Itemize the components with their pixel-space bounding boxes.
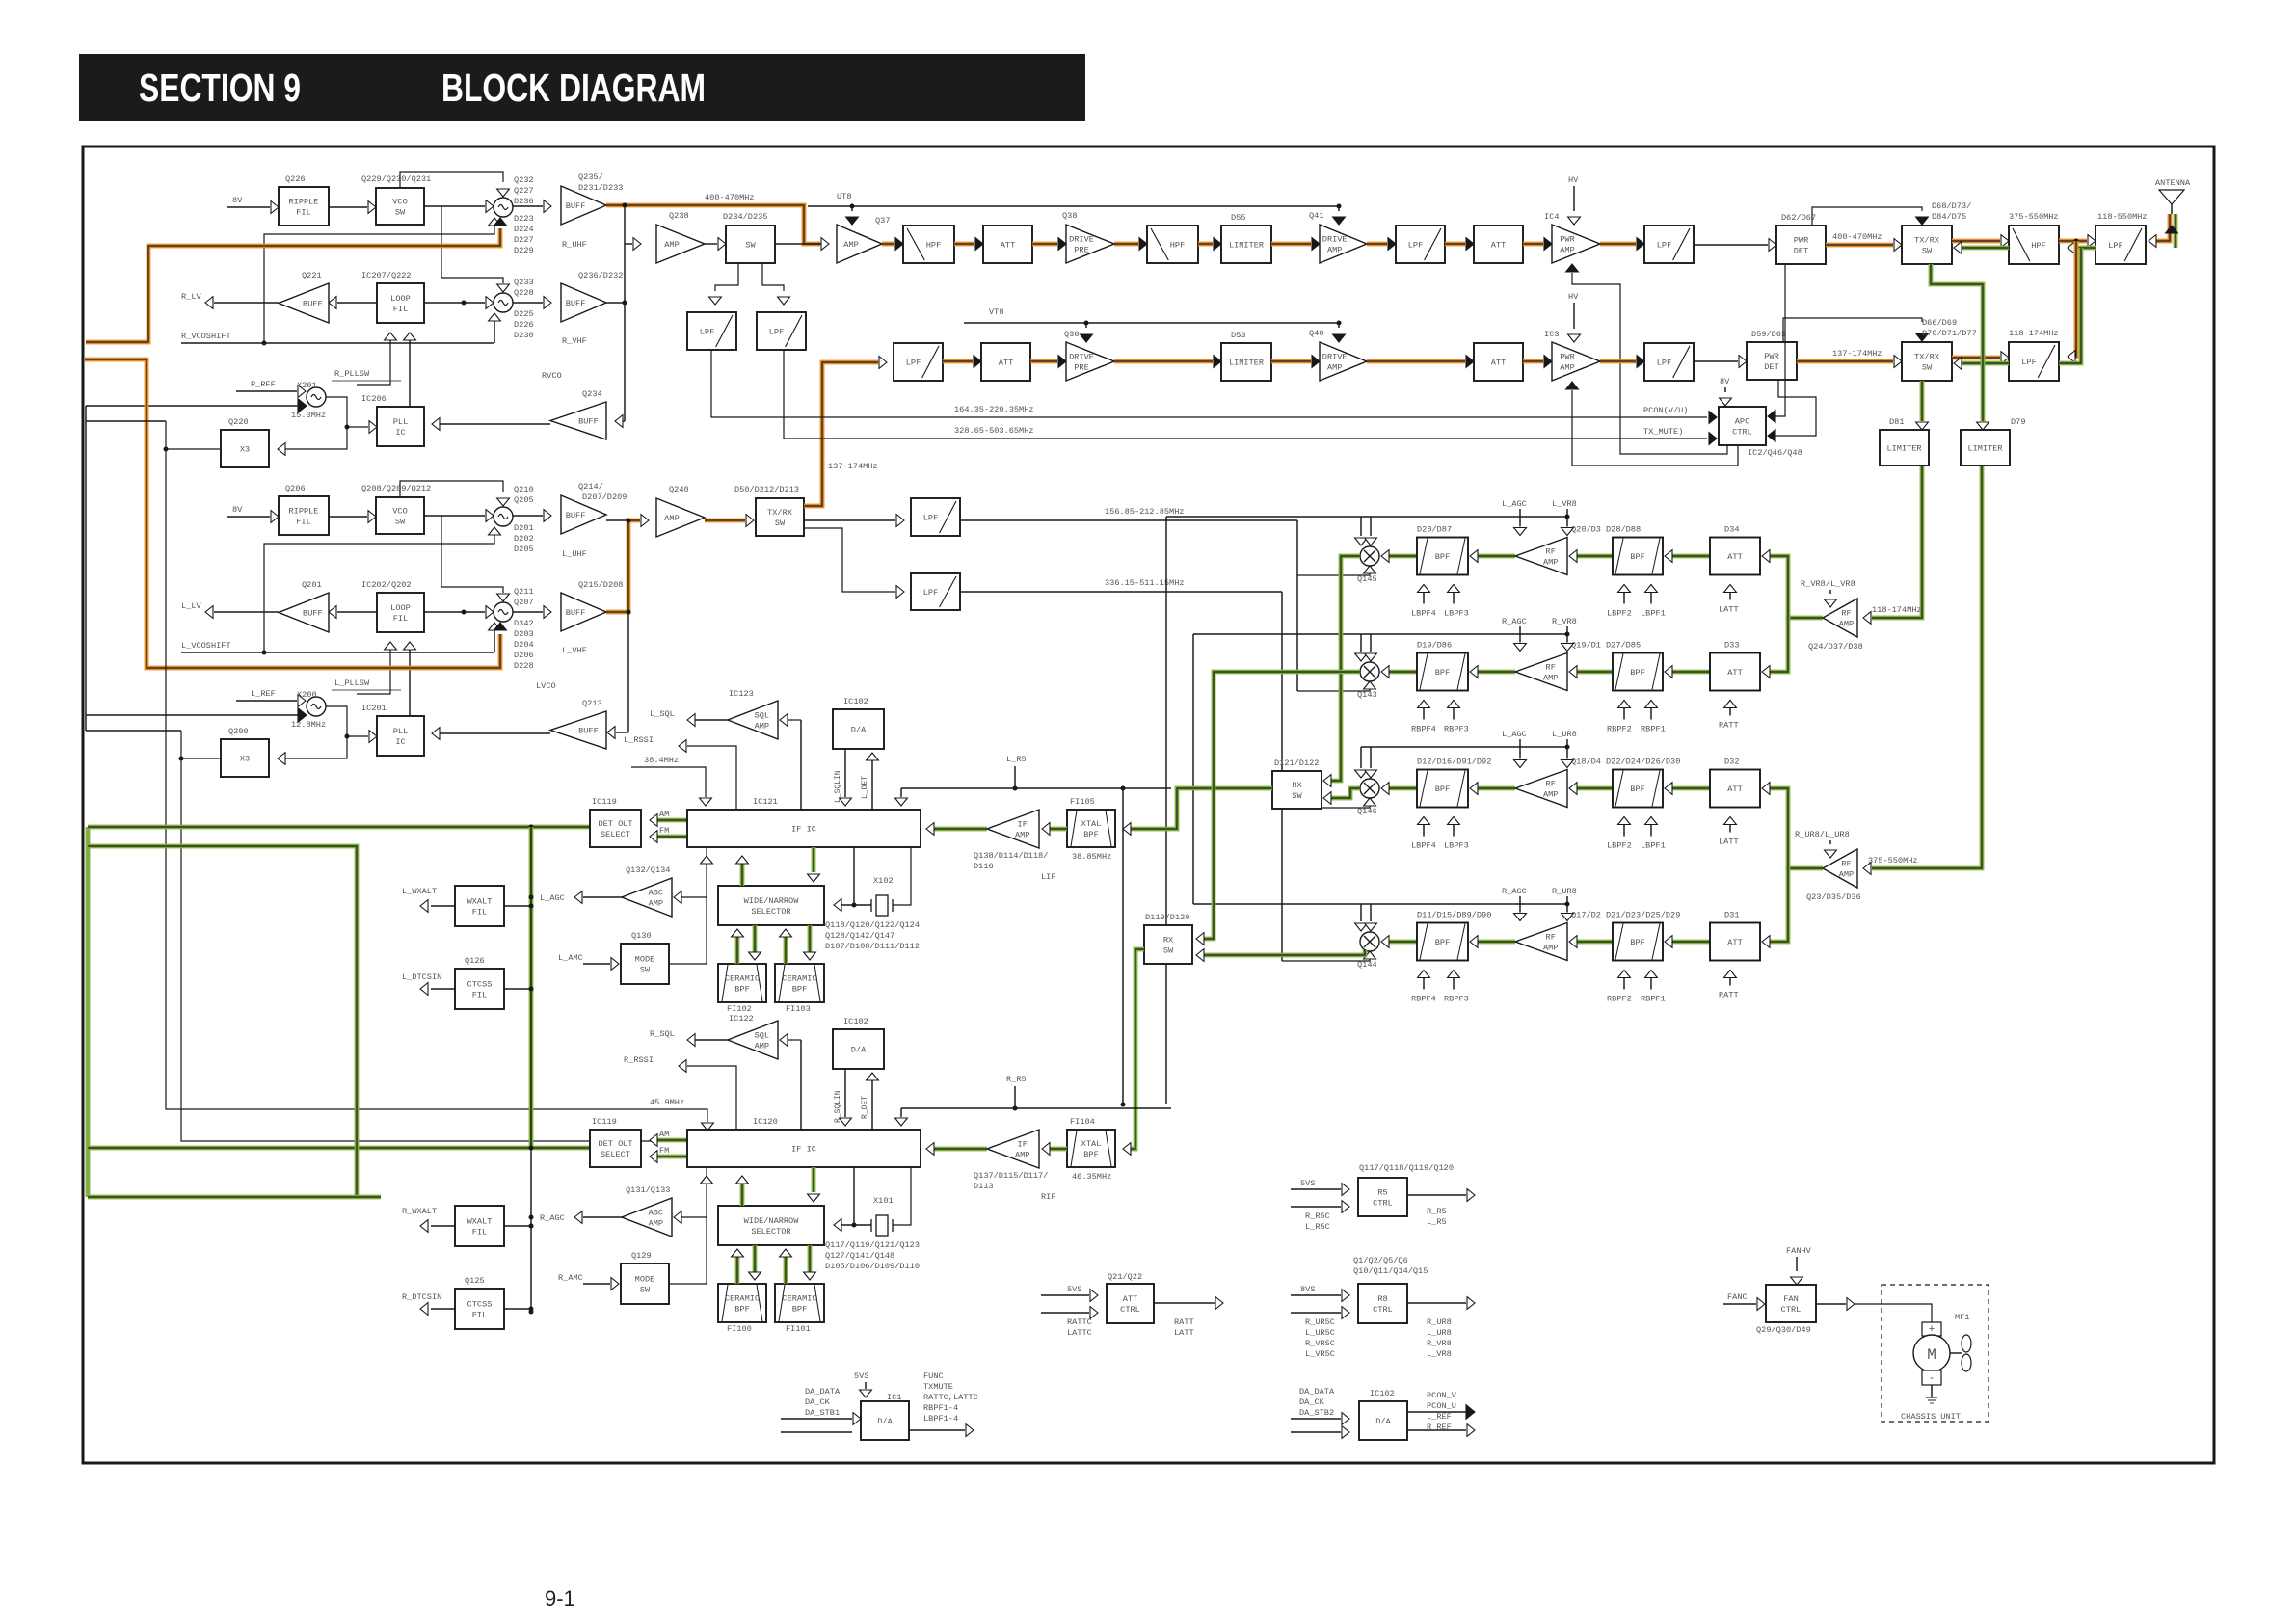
- green am wire: [652, 1138, 687, 1143]
- svg-text:LPF: LPF: [923, 514, 938, 523]
- svg-text:L_VR8: L_VR8: [1552, 499, 1577, 509]
- svg-text:SW: SW: [640, 1286, 651, 1295]
- svg-text:RATTC,LATTC: RATTC,LATTC: [923, 1393, 978, 1402]
- svg-text:LPF: LPF: [700, 328, 714, 337]
- svg-text:LIMITER: LIMITER: [1229, 241, 1264, 251]
- svg-text:ATT: ATT: [1727, 938, 1742, 947]
- crystal X101: [876, 1215, 888, 1236]
- svg-text:VT8: VT8: [989, 307, 1003, 317]
- svg-text:AMP: AMP: [1327, 363, 1342, 373]
- svg-text:L_UHF: L_UHF: [562, 549, 587, 559]
- green mixer Q145 output down to RX SW D121/D122: [1331, 556, 1360, 781]
- svg-text:SW: SW: [1163, 946, 1174, 956]
- att ctrl control input: [1041, 1312, 1089, 1314]
- green bpf to mixer Q146: [1389, 786, 1417, 791]
- svg-text:R_UR8: R_UR8: [1552, 887, 1577, 896]
- mixer2 bottom arrow from vcoshift: [494, 628, 495, 652]
- bpf2 pins RBPF2 RBPF1: [1623, 701, 1625, 720]
- svg-text:AM: AM: [659, 810, 669, 819]
- svg-text:R_VR8: R_VR8: [1552, 617, 1577, 626]
- svg-text:WIDE/NARROW: WIDE/NARROW: [744, 1216, 800, 1226]
- green if ic to wn selector 1: [740, 1180, 745, 1206]
- mixer L mixer 2: [494, 602, 513, 622]
- svg-text:D107/D108/D111/D112: D107/D108/D111/D112: [825, 942, 920, 951]
- svg-text:LIMITER: LIMITER: [1967, 444, 2002, 454]
- lpf VHF b: [1644, 343, 1694, 381]
- svg-text:Q211: Q211: [514, 587, 534, 597]
- svg-text:400-470MHz: 400-470MHz: [1832, 232, 1882, 242]
- green bus horizontal to det out upper: [88, 825, 590, 830]
- buffer Q213 feedback: [432, 732, 550, 734]
- svg-text:LBPF2: LBPF2: [1607, 609, 1632, 619]
- svg-text:CTRL: CTRL: [1120, 1305, 1140, 1315]
- svg-text:LOOP: LOOP: [390, 294, 411, 304]
- svg-text:D203: D203: [514, 629, 534, 639]
- orange tx/rx sw to hpf UHF: [1952, 239, 2000, 244]
- orange wire to lpf2: [1600, 242, 1636, 247]
- svg-text:IC122: IC122: [729, 1014, 754, 1024]
- loop filter IC202/Q202: [377, 593, 424, 632]
- svg-text:BPF: BPF: [1435, 785, 1450, 794]
- svg-text:15.3MHz: 15.3MHz: [291, 411, 326, 420]
- svg-text:LBPF1-4: LBPF1-4: [923, 1414, 958, 1423]
- orange wire limiter to drive amp Q40: [1271, 359, 1311, 364]
- lpf 118-550MHz: [2096, 226, 2146, 264]
- svg-text:D236: D236: [514, 197, 534, 206]
- svg-text:IC202/Q202: IC202/Q202: [361, 580, 412, 590]
- orange wire to drive amp Q41: [1271, 242, 1311, 247]
- orange tx/rx sw VHF to lpf 118-174: [1952, 356, 2000, 360]
- svg-text:L_SQL: L_SQL: [650, 709, 675, 719]
- wire amp to sw: [705, 243, 717, 245]
- UT8 arrow into Q37: [851, 206, 853, 211]
- svg-text:L_R5: L_R5: [1006, 755, 1027, 764]
- svg-text:BPF: BPF: [1083, 830, 1098, 839]
- bpf pins LBPF4 LBPF3: [1423, 817, 1425, 837]
- APC feedback into IC4: [1566, 264, 1579, 272]
- svg-text:Q227: Q227: [514, 186, 534, 196]
- mixer R mixer 2: [494, 293, 513, 312]
- wide/narrow selector ['Q118/Q120/Q122/Q124', 'Q128/Q142/Q147', 'D107/D108/D111/D112']: [718, 886, 824, 925]
- svg-text:HV: HV: [1568, 292, 1579, 302]
- svg-text:IC: IC: [395, 737, 405, 747]
- orange wire att to pwr amp IC3: [1523, 359, 1543, 364]
- bpf D12/D16/D91/D92: [1417, 770, 1468, 808]
- svg-text:ATT: ATT: [1001, 241, 1015, 251]
- bpf D27/D85: [1613, 653, 1663, 691]
- buffer amp Q201: [279, 593, 329, 632]
- svg-text:Q36: Q36: [1064, 330, 1079, 339]
- orange green pair down to VHF lpf: [2068, 241, 2076, 357]
- UT8 arrow into Q41: [1338, 206, 1340, 211]
- svg-text:IC2/Q46/Q48: IC2/Q46/Q48: [1748, 448, 1802, 458]
- svg-text:FANC: FANC: [1727, 1292, 1748, 1302]
- r5 ctrl output: [1407, 1194, 1466, 1196]
- green rf amp Q17/D2 to bpf: [1478, 940, 1515, 945]
- svg-text:L_R5C: L_R5C: [1305, 1222, 1330, 1232]
- svg-text:D84/D75: D84/D75: [1932, 212, 1966, 222]
- svg-text:137-174MHz: 137-174MHz: [828, 462, 878, 471]
- svg-text:D/A: D/A: [851, 726, 867, 735]
- orange wire pwr amp to lpf VHF: [1600, 359, 1636, 364]
- wire ripple to vco sw: [329, 206, 367, 208]
- ceramic bpf FI101: [775, 1284, 824, 1322]
- svg-text:LIMITER: LIMITER: [1229, 359, 1264, 368]
- switch D234/D235: [726, 226, 775, 263]
- svg-text:HV: HV: [1568, 175, 1579, 185]
- svg-text:156.85-212.85MHz: 156.85-212.85MHz: [1105, 507, 1185, 517]
- svg-text:DET: DET: [1794, 247, 1808, 256]
- svg-text:Q129: Q129: [631, 1251, 652, 1261]
- svg-text:TXMUTE: TXMUTE: [923, 1382, 953, 1392]
- svg-text:328.65-503.65MHz: 328.65-503.65MHz: [954, 426, 1034, 436]
- long reference line from left: [86, 714, 298, 716]
- svg-text:AMP: AMP: [1543, 558, 1558, 568]
- svg-text:AGC: AGC: [649, 1209, 663, 1218]
- svg-text:SW: SW: [395, 518, 406, 527]
- svg-text:BPF: BPF: [1435, 938, 1450, 947]
- att D31: [1710, 923, 1760, 961]
- svg-text:D55: D55: [1231, 213, 1245, 223]
- mixer L mixer 1: [494, 507, 513, 526]
- wire vco sw to mixer1: [424, 205, 485, 207]
- svg-text:BUFF: BUFF: [566, 201, 586, 211]
- if ic IC120: [687, 1130, 921, 1167]
- r5 bus vertical connector: [1122, 788, 1124, 1104]
- buffer amp Q236/D232: [513, 302, 543, 304]
- svg-text:PWR: PWR: [1794, 236, 1808, 246]
- svg-text:FIL: FIL: [472, 991, 487, 1000]
- svg-text:APC: APC: [1735, 417, 1749, 427]
- R_LV output label: [214, 302, 279, 304]
- green att to bpf2 D33: [1672, 670, 1710, 675]
- orange wire to lpf: [1367, 242, 1387, 247]
- LO bus 1 to mixers Q145 Q143: [1296, 520, 1298, 691]
- svg-text:D207/D209: D207/D209: [582, 492, 627, 502]
- green mixer Q143 output down to RX SW D119/D120: [1204, 672, 1360, 939]
- agc amp output to bus: [583, 1216, 622, 1218]
- svg-text:RF: RF: [1546, 780, 1556, 789]
- motor MF1 plus terminal: [1922, 1322, 1941, 1336]
- svg-text:R_DTCSIN: R_DTCSIN: [402, 1292, 441, 1302]
- svg-text:LATTC: LATTC: [1067, 1328, 1092, 1338]
- wire vco sw to mixer2 top: [441, 206, 503, 283]
- 38.4MHz line to IF IC: [631, 767, 706, 797]
- svg-text:D225: D225: [514, 309, 534, 319]
- svg-text:Q206: Q206: [285, 484, 306, 493]
- svg-text:CTRL: CTRL: [1732, 428, 1752, 438]
- svg-text:L_VR5C: L_VR5C: [1305, 1349, 1335, 1359]
- green rx sw to xtal bpf FI105: [1125, 788, 1272, 829]
- svg-text:RATT: RATT: [1719, 991, 1739, 1000]
- lpf 156MHz: [911, 498, 960, 536]
- svg-text:D22/D24/D26/D30: D22/D24/D26/D30: [1606, 758, 1680, 767]
- svg-text:FI102: FI102: [727, 1004, 752, 1014]
- arrows into rf amp Q20/D3 top: [1519, 517, 1521, 527]
- svg-text:LPF: LPF: [2108, 241, 2122, 251]
- lpf row1: [1396, 226, 1445, 263]
- svg-text:PWR: PWR: [1560, 235, 1574, 245]
- green bpf2 to rf amp Q17/D2: [1577, 940, 1613, 945]
- orange wire to ATT: [954, 242, 974, 247]
- svg-text:AMP: AMP: [1560, 246, 1574, 255]
- svg-text:LPF: LPF: [2021, 358, 2036, 367]
- wire loop fil to mixer2: [424, 611, 485, 613]
- svg-text:Q138/D114/D118/: Q138/D114/D118/: [974, 851, 1048, 861]
- orange pwr det to tx/rx sw VHF 137-174MHz: [1797, 359, 1893, 364]
- svg-text:Q228: Q228: [514, 288, 534, 298]
- svg-text:38.85MHz: 38.85MHz: [1072, 852, 1111, 862]
- svg-text:CERAMIC: CERAMIC: [782, 1294, 816, 1304]
- svg-text:IC4: IC4: [1544, 212, 1559, 222]
- att pin RATT: [1729, 971, 1731, 986]
- agc amp input from if ic: [681, 847, 707, 897]
- rx switch D121/D122: [1272, 771, 1322, 809]
- svg-text:PCON_V: PCON_V: [1427, 1391, 1457, 1400]
- svg-text:118-174MHz: 118-174MHz: [2009, 329, 2059, 338]
- svg-text:Q21/Q22: Q21/Q22: [1108, 1272, 1142, 1282]
- svg-text:R_RSSI: R_RSSI: [624, 1055, 654, 1065]
- svg-text:12.8MHz: 12.8MHz: [291, 720, 326, 730]
- green limiter D81 to rf amp Q24: [1872, 466, 1922, 618]
- svg-text:ATT: ATT: [999, 359, 1013, 368]
- svg-text:D113: D113: [974, 1182, 994, 1191]
- svg-text:D62/D67: D62/D67: [1781, 213, 1816, 223]
- arrow into APC 2: [1709, 433, 1717, 445]
- svg-text:DET OUT: DET OUT: [598, 819, 632, 829]
- svg-text:Q207: Q207: [514, 598, 534, 607]
- svg-text:FI104: FI104: [1070, 1117, 1095, 1127]
- svg-text:IC123: IC123: [729, 689, 754, 699]
- antenna arrow up: [2166, 226, 2178, 233]
- svg-text:IC207/Q222: IC207/Q222: [361, 271, 412, 280]
- svg-text:CHASSIS UNIT: CHASSIS UNIT: [1901, 1412, 1961, 1422]
- ctcss filter Q125: [455, 1289, 504, 1329]
- svg-text:Q1/Q2/Q5/Q6: Q1/Q2/Q5/Q6: [1353, 1256, 1408, 1265]
- svg-text:D121/D122: D121/D122: [1274, 758, 1319, 768]
- svg-text:R_UR8: R_UR8: [1427, 1317, 1452, 1327]
- bpf D22/D24/D26/D30: [1613, 770, 1663, 808]
- x3 multiplier Q200: [221, 739, 269, 777]
- mode sw output to if ic: [669, 897, 707, 964]
- svg-text:IF IC: IF IC: [791, 1145, 816, 1155]
- green xtal bpf to if amp: [1050, 827, 1067, 832]
- svg-text:MODE: MODE: [635, 1275, 655, 1285]
- lpf 118-174MHz: [2009, 342, 2059, 381]
- svg-text:Q117/Q118/Q119/Q120: Q117/Q118/Q119/Q120: [1359, 1163, 1454, 1173]
- amp Q240: [641, 515, 649, 527]
- svg-text:AGC: AGC: [649, 889, 663, 898]
- svg-text:Q143: Q143: [1357, 690, 1377, 700]
- svg-text:L_UR5C: L_UR5C: [1305, 1328, 1335, 1338]
- svg-text:Q10/Q11/Q14/Q15: Q10/Q11/Q14/Q15: [1353, 1266, 1428, 1276]
- svg-text:375-550MHz: 375-550MHz: [1868, 856, 1918, 865]
- svg-text:SQL: SQL: [755, 711, 769, 721]
- svg-text:FI103: FI103: [786, 1004, 811, 1014]
- svg-text:Q215/D208: Q215/D208: [578, 580, 623, 590]
- wire ripple to vco sw: [329, 516, 367, 518]
- limiter D55: [1221, 226, 1271, 263]
- svg-text:D21/D23/D25/D29: D21/D23/D25/D29: [1606, 911, 1680, 920]
- svg-text:Q132/Q134: Q132/Q134: [626, 865, 670, 875]
- svg-text:L_RSSI: L_RSSI: [624, 735, 654, 745]
- wire lpf to pwr det D59/D63: [1694, 360, 1738, 362]
- orange arrow into VHF LPF: [879, 357, 887, 369]
- ceramic bpf FI103: [775, 964, 824, 1002]
- svg-text:DET OUT: DET OUT: [598, 1139, 632, 1149]
- svg-text:BPF: BPF: [1083, 1150, 1098, 1159]
- mixer Q145: [1360, 546, 1379, 566]
- svg-text:D59/D63: D59/D63: [1751, 330, 1786, 339]
- svg-text:BLOCK DIAGRAM: BLOCK DIAGRAM: [441, 66, 706, 110]
- svg-text:DA_CK: DA_CK: [805, 1397, 831, 1407]
- svg-text:D/A: D/A: [851, 1046, 867, 1055]
- svg-text:FI105: FI105: [1070, 797, 1095, 807]
- svg-text:Q130: Q130: [631, 931, 652, 941]
- svg-text:WXALT: WXALT: [467, 897, 493, 907]
- svg-text:Q236/D232: Q236/D232: [578, 271, 623, 280]
- svg-text:SW: SW: [1922, 247, 1933, 256]
- svg-text:D68/D73/: D68/D73/: [1932, 201, 1971, 211]
- svg-text:45.9MHz: 45.9MHz: [650, 1098, 684, 1107]
- bpf D11/D15/D89/D90: [1417, 923, 1468, 961]
- svg-text:D20/D87: D20/D87: [1417, 525, 1452, 535]
- svg-text:AM: AM: [659, 1130, 669, 1139]
- svg-text:FIL: FIL: [296, 208, 310, 218]
- svg-text:R_SQLIN: R_SQLIN: [834, 1090, 842, 1123]
- svg-text:D34: D34: [1724, 525, 1739, 535]
- svg-text:LBPF3: LBPF3: [1444, 609, 1469, 619]
- svg-text:Q17/D2: Q17/D2: [1571, 911, 1601, 920]
- green VHF tx/rx sw down to limiter D81: [1920, 381, 1925, 421]
- hpf 375-550MHz: [2009, 226, 2059, 264]
- buffer amp Q214/: [513, 515, 543, 517]
- if ic IC121: [687, 810, 921, 847]
- mixer2 bottom arrow from vcoshift: [494, 319, 495, 343]
- svg-text:DRIVE: DRIVE: [1069, 353, 1094, 362]
- svg-text:L_AGC: L_AGC: [1502, 499, 1527, 509]
- orange wire to att2: [1445, 242, 1465, 247]
- pwr det D62 feedback to APC: [1775, 264, 1785, 416]
- orange wire lpf to att VHF: [943, 359, 973, 364]
- svg-text:CTCSS: CTCSS: [467, 980, 493, 990]
- svg-text:SQL: SQL: [755, 1031, 769, 1041]
- att row1 b: [1474, 226, 1523, 263]
- orange arrow into mixer L2: [494, 623, 507, 630]
- svg-text:D204: D204: [514, 640, 534, 650]
- pwr det top to tx/rx sw mute arrow: [1812, 207, 1922, 226]
- svg-text:R_R5C: R_R5C: [1305, 1211, 1330, 1221]
- agc control line row Q145: [1166, 516, 1567, 518]
- ctcss filter Q126: [455, 969, 504, 1009]
- svg-text:Q226: Q226: [285, 174, 306, 184]
- svg-text:R_AMC: R_AMC: [558, 1273, 583, 1283]
- svg-text:L_PLLSW: L_PLLSW: [334, 678, 370, 688]
- svg-text:Q220: Q220: [228, 417, 249, 427]
- svg-text:Q18/D4: Q18/D4: [1571, 758, 1601, 767]
- green bpf2 to rf amp Q19/D1: [1577, 670, 1613, 675]
- junction dot antenna bus: [2074, 239, 2079, 244]
- svg-text:R_SQL: R_SQL: [650, 1029, 675, 1039]
- pll ic IC201: [377, 716, 424, 756]
- sql output label: [689, 719, 728, 721]
- svg-text:RF: RF: [1841, 609, 1851, 619]
- svg-text:R_VR8/L_VR8: R_VR8/L_VR8: [1801, 579, 1855, 589]
- wire pll area to x3: [278, 427, 347, 449]
- if amp Q138/D114/D118/: [987, 810, 1039, 848]
- motor MF1: [1913, 1335, 1950, 1371]
- crystal X200: [307, 697, 326, 716]
- buffer amp Q215/D208: [513, 611, 543, 613]
- svg-text:D227: D227: [514, 235, 534, 245]
- svg-text:D229: D229: [514, 246, 534, 255]
- svg-text:RF: RF: [1546, 547, 1556, 557]
- det out select IC119: [590, 1130, 641, 1167]
- svg-text:TX_MUTE): TX_MUTE): [1643, 427, 1683, 437]
- svg-text:AMP: AMP: [1839, 870, 1854, 880]
- xtal output to pll ic: [326, 397, 368, 427]
- svg-text:5VS: 5VS: [854, 1371, 868, 1381]
- wxalt filter: [455, 886, 504, 926]
- svg-text:CERAMIC: CERAMIC: [782, 974, 816, 984]
- svg-text:PRE: PRE: [1074, 246, 1088, 255]
- svg-text:TX/RX: TX/RX: [767, 508, 792, 518]
- svg-text:D28/D88: D28/D88: [1606, 525, 1641, 535]
- svg-text:RF: RF: [1841, 860, 1851, 869]
- svg-text:Q131/Q133: Q131/Q133: [626, 1185, 670, 1195]
- mixer Q143: [1360, 662, 1379, 681]
- green lpf to tx/rx sw VHF: [1962, 361, 2009, 366]
- junction L buffers: [627, 519, 631, 523]
- svg-text:R_VHF: R_VHF: [562, 336, 587, 346]
- svg-text:FM: FM: [659, 1146, 669, 1156]
- ceramic bpf FI100: [718, 1284, 766, 1322]
- rf amp Q20/D3: [1515, 538, 1567, 575]
- svg-text:CERAMIC: CERAMIC: [725, 1294, 760, 1304]
- svg-text:BUFF: BUFF: [578, 727, 599, 736]
- green wn to ceramic bpfs: [735, 1253, 740, 1284]
- svg-text:400-470MHz: 400-470MHz: [705, 193, 755, 202]
- svg-text:Q205: Q205: [514, 495, 534, 505]
- green if amp to if ic: [928, 827, 987, 832]
- svg-text:DA_DATA: DA_DATA: [805, 1387, 841, 1397]
- svg-text:RATTC: RATTC: [1067, 1317, 1092, 1327]
- svg-text:CERAMIC: CERAMIC: [725, 974, 760, 984]
- arrows into mixer Q144 top: [1360, 904, 1362, 921]
- svg-text:TX/RX: TX/RX: [1914, 236, 1939, 246]
- bpf pins LBPF4 LBPF3: [1423, 585, 1425, 604]
- agc amp input from if ic: [681, 1167, 707, 1217]
- svg-text:LBPF3: LBPF3: [1444, 841, 1469, 851]
- green bpf2 to rf amp Q18/D4: [1577, 786, 1613, 791]
- svg-text:D116: D116: [974, 862, 994, 871]
- arrows into rf amp Q19/D1 top: [1519, 634, 1521, 643]
- svg-text:R_AGC: R_AGC: [1502, 617, 1527, 626]
- wire vco sw top to mixer1 top: [400, 172, 503, 188]
- left reference vertical wires: [85, 406, 87, 731]
- svg-text:L_AGC: L_AGC: [540, 893, 565, 903]
- rf amp Q17/D2: [1515, 923, 1567, 961]
- bpf2 pins LBPF2 LBPF1: [1623, 585, 1625, 604]
- svg-text:LIMITER: LIMITER: [1886, 444, 1921, 454]
- svg-text:L_VR8: L_VR8: [1427, 1349, 1452, 1359]
- svg-text:ATT: ATT: [1727, 785, 1742, 794]
- agc bus vertical 1: [1165, 517, 1167, 1104]
- green limiter D79 to rf amp Q23: [1872, 466, 1982, 868]
- limiter D81: [1880, 430, 1929, 466]
- svg-text:LPF: LPF: [1657, 359, 1671, 368]
- svg-text:FI101: FI101: [786, 1324, 811, 1334]
